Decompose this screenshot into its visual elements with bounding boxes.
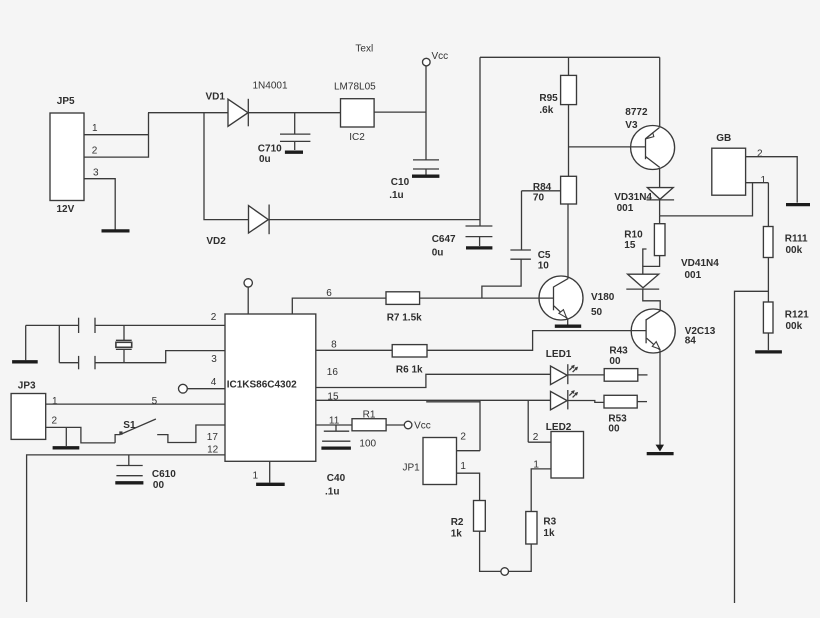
wire V3 collector up <box>659 57 661 127</box>
diode VD1 <box>206 81 288 127</box>
svg-text:15: 15 <box>327 391 339 402</box>
svg-text:1: 1 <box>253 470 259 481</box>
wire V180 collector to R84 <box>567 204 569 278</box>
svg-text:Texl: Texl <box>355 44 373 55</box>
wire GB pin1 to R111 <box>767 183 769 227</box>
resistor R121 <box>763 302 809 333</box>
svg-text:VD1: VD1 <box>206 92 226 103</box>
ground IC pin1 <box>253 461 285 484</box>
wire V3 emitter down <box>659 168 661 188</box>
wire riser JP1 pin2 <box>479 400 481 450</box>
svg-text:V3: V3 <box>625 120 638 131</box>
wire JP2 pin2 <box>528 441 551 443</box>
node VD2 branch <box>204 113 249 220</box>
svg-text:10: 10 <box>538 261 550 272</box>
svg-text:R7 1.5k: R7 1.5k <box>387 313 422 324</box>
diode VD2 <box>206 205 269 248</box>
ground JP5 <box>102 229 130 232</box>
svg-text:C647: C647 <box>432 234 456 245</box>
wire LED1 to R43 <box>568 374 604 376</box>
svg-text:R111: R111 <box>785 234 808 245</box>
regulator IC2 LM78L05 <box>334 82 376 144</box>
svg-text:50: 50 <box>591 307 603 318</box>
svg-text:V180: V180 <box>591 292 615 303</box>
svg-text:IC1KS86C4302: IC1KS86C4302 <box>227 380 297 391</box>
terminal pin4 <box>179 377 226 393</box>
svg-text:LED1: LED1 <box>546 349 572 360</box>
svg-text:1k: 1k <box>451 529 463 540</box>
terminal Vcc R1 <box>386 421 431 432</box>
svg-text:R95: R95 <box>539 93 558 104</box>
svg-text:R121: R121 <box>785 309 809 320</box>
svg-text:1: 1 <box>761 175 767 186</box>
svg-text:12: 12 <box>207 444 219 455</box>
transistor V2 C1384 <box>631 309 716 353</box>
svg-text:VD31N4: VD31N4 <box>614 192 652 203</box>
svg-text:C5: C5 <box>538 250 551 261</box>
terminal junction <box>501 568 509 576</box>
wire R84 left <box>522 190 561 192</box>
svg-text:100: 100 <box>359 439 376 450</box>
ground V180 <box>555 325 581 328</box>
svg-text:5: 5 <box>152 396 158 407</box>
svg-text:8: 8 <box>331 339 337 350</box>
capacitor C710 <box>258 113 311 166</box>
svg-text:2: 2 <box>92 146 98 157</box>
wire xtal bottom to IC pin3 <box>95 351 225 363</box>
svg-text:0u: 0u <box>259 154 271 165</box>
wire JP1 pin2 <box>457 450 481 452</box>
wire LED2 to R53 <box>568 401 604 403</box>
battery GB <box>712 133 767 195</box>
crystal X1 <box>116 325 132 362</box>
wire top rail <box>480 56 660 58</box>
svg-text:6: 6 <box>326 288 332 299</box>
resistor R53 <box>604 395 647 434</box>
svg-text:001: 001 <box>617 203 634 214</box>
svg-text:LM78L05: LM78L05 <box>334 82 376 93</box>
wire crystal left link <box>58 325 60 362</box>
svg-text:2: 2 <box>52 416 58 427</box>
wire branch to long vertical <box>735 291 769 603</box>
svg-text:JP1: JP1 <box>403 463 421 474</box>
wire JP5 pin1 <box>84 134 148 136</box>
svg-text:C40: C40 <box>327 473 346 484</box>
wire IC pin15 <box>316 399 551 401</box>
capacitor C40 <box>321 425 351 498</box>
wire IC pin11 to R1 <box>316 424 352 426</box>
svg-text:17: 17 <box>207 432 219 443</box>
wire C5 top riser <box>521 191 523 250</box>
svg-text:C610: C610 <box>152 469 176 480</box>
connector JP2 LED2 <box>533 432 584 479</box>
connector JP1 <box>403 431 467 484</box>
IC1 KS86C4302 <box>225 314 316 461</box>
svg-text:1: 1 <box>533 459 539 470</box>
svg-text:4: 4 <box>211 377 217 388</box>
svg-text:R1: R1 <box>363 409 376 420</box>
svg-text:2: 2 <box>533 432 539 443</box>
svg-text:16: 16 <box>327 367 339 378</box>
ground GB <box>786 203 810 206</box>
svg-text:15: 15 <box>624 240 636 251</box>
svg-text:Vcc: Vcc <box>414 421 431 432</box>
capacitor C610 <box>115 455 176 491</box>
svg-text:8772: 8772 <box>625 107 648 118</box>
wire xtal top to IC pin2 <box>95 324 225 326</box>
svg-text:11: 11 <box>329 415 340 426</box>
svg-text:2: 2 <box>460 431 466 442</box>
power terminal Vcc <box>423 51 449 160</box>
svg-text:JP5: JP5 <box>57 96 75 107</box>
svg-text:00: 00 <box>153 480 165 491</box>
transistor V1 80 <box>539 276 615 320</box>
switch S1 <box>115 419 225 443</box>
wire V2 emitter down <box>659 350 661 446</box>
ground R121 <box>755 350 782 353</box>
resistor R111 <box>763 227 808 258</box>
svg-text:00: 00 <box>609 356 621 367</box>
capacitor C5 <box>482 250 551 298</box>
svg-text:1: 1 <box>92 123 98 134</box>
wire JP5 pin3 <box>84 179 115 231</box>
svg-text:C10: C10 <box>391 177 410 188</box>
wire pin6 to R7 <box>292 298 386 314</box>
wire IC2 output <box>374 111 426 113</box>
resistor R95 <box>539 57 576 116</box>
wire base V3 <box>569 146 646 148</box>
wire GB pin2 <box>746 157 798 203</box>
wire VD3 to GB pin1 <box>660 183 753 216</box>
svg-text:.6k: .6k <box>539 105 553 116</box>
capacitor C647 <box>432 226 493 259</box>
svg-text:1k: 1k <box>543 528 555 539</box>
wire V180 emitter to ground <box>567 319 569 325</box>
svg-text:1: 1 <box>52 396 58 407</box>
svg-text:R2: R2 <box>451 517 464 528</box>
connector JP5 <box>50 96 99 215</box>
wire JP3 pin2 <box>46 427 115 443</box>
wire main 12V rail <box>148 112 228 114</box>
resistor R1 <box>352 409 386 449</box>
svg-text:70: 70 <box>533 193 545 204</box>
svg-text:JP3: JP3 <box>18 381 36 392</box>
wire R95 to base node <box>568 105 570 177</box>
svg-text:00k: 00k <box>786 245 803 256</box>
svg-text:001: 001 <box>685 270 702 281</box>
capacitor C10 <box>389 160 439 201</box>
wire JP5 pin2 <box>84 113 149 157</box>
wire IC pin12 <box>27 455 225 602</box>
svg-text:R43: R43 <box>609 345 628 356</box>
ground JP3 <box>53 427 80 447</box>
svg-text:R84: R84 <box>533 182 552 193</box>
wire IC pin8 to R6 <box>316 349 392 351</box>
wire R3 top to JP2 pin1 <box>531 469 551 512</box>
wire JP1 pin1 <box>457 473 480 500</box>
wire crystal bottom <box>59 362 78 364</box>
svg-text:C710: C710 <box>258 143 282 154</box>
svg-text:12V: 12V <box>57 204 75 215</box>
resistor R84 <box>533 176 577 204</box>
wire junction to R3 <box>509 544 532 571</box>
LED1 <box>546 349 578 385</box>
wire riser JP2 pin2 <box>527 400 529 442</box>
svg-text:00: 00 <box>608 424 620 435</box>
ground V2 arrow <box>656 445 665 452</box>
svg-text:GB: GB <box>716 133 731 144</box>
svg-text:2: 2 <box>757 149 763 160</box>
svg-text:R6 1k: R6 1k <box>396 364 423 375</box>
wire IC pin16 <box>316 374 551 387</box>
svg-text:0u: 0u <box>432 248 444 259</box>
svg-text:2: 2 <box>211 312 217 323</box>
crystal circuit ground <box>12 325 38 361</box>
svg-text:IC2: IC2 <box>349 132 365 143</box>
wire crystal top <box>26 324 79 326</box>
wire JP3 pin1 to IC pin5 <box>46 403 225 405</box>
svg-text:1N4001: 1N4001 <box>253 81 288 92</box>
terminal IC1 top <box>244 279 252 314</box>
capacitor top xtal <box>79 318 95 333</box>
wire VD2 to C647 node <box>269 219 480 221</box>
resistor R6 <box>392 345 427 376</box>
svg-text:.1u: .1u <box>325 487 339 498</box>
svg-text:3: 3 <box>93 168 99 179</box>
wire GB pin1 <box>746 182 769 184</box>
diode VD4 1N4001 <box>626 258 719 311</box>
diode VD3 1N4001 <box>614 188 674 216</box>
capacitor bottom xtal <box>79 356 95 369</box>
transistor V3 8772 <box>625 107 674 170</box>
LED2 <box>546 390 578 433</box>
wire R6 to V2 base <box>427 331 646 351</box>
wire VD1 to IC2 <box>248 112 340 114</box>
resistor R2 <box>451 501 486 540</box>
wire R121 to ground <box>767 333 769 350</box>
svg-text:00k: 00k <box>786 321 803 332</box>
svg-text:VD41N4: VD41N4 <box>681 258 719 269</box>
svg-text:R3: R3 <box>543 516 556 527</box>
wire left riser to C647 <box>479 57 481 226</box>
svg-text:S1: S1 <box>123 420 136 431</box>
wire R111 to R121 <box>767 258 769 303</box>
resistor R43 <box>604 345 647 381</box>
svg-text:Vcc: Vcc <box>432 51 449 62</box>
svg-text:84: 84 <box>685 336 697 347</box>
svg-text:3: 3 <box>211 354 217 365</box>
svg-text:.1u: .1u <box>389 190 403 201</box>
resistor R7 <box>386 292 422 324</box>
svg-text:1: 1 <box>460 461 466 472</box>
connector JP3 <box>11 381 58 440</box>
svg-text:VD2: VD2 <box>206 236 226 247</box>
resistor R10 <box>624 216 665 274</box>
wire R2 bottom <box>480 531 501 571</box>
resistor R3 <box>526 512 557 545</box>
wire R7 to V180 base <box>420 297 554 299</box>
